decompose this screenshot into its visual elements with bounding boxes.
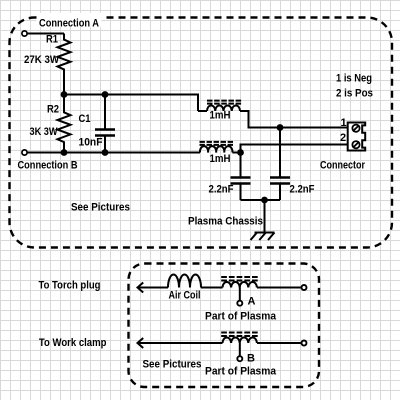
resistor R1: [58, 34, 71, 95]
svg-text:Part of Plasma: Part of Plasma: [205, 366, 277, 378]
svg-text:1: 1: [341, 117, 347, 129]
wire: tap B: [239, 343, 241, 356]
capacitor 2.2nF (right): [270, 128, 290, 201]
svg-text:Part of Plasma: Part of Plasma: [205, 311, 277, 323]
capacitor 2.2nF (left): [231, 153, 251, 201]
wire: chassis bus: [241, 199, 281, 201]
svg-text:Connection B: Connection B: [18, 160, 78, 172]
svg-text:2 is Pos: 2 is Pos: [336, 88, 373, 100]
inductor Air Coil: [168, 275, 201, 288]
junction node: C1 top: [102, 91, 109, 98]
svg-text:A: A: [248, 296, 256, 308]
wire: L2 to junction: [232, 152, 240, 154]
inductor L2 1mH (bottom): [200, 142, 234, 153]
wire: L1 to pin1 net: [240, 111, 348, 128]
main enclosure dashed box: [10, 18, 393, 248]
svg-text:2.2nF: 2.2nF: [209, 184, 234, 196]
svg-text:To Work clamp: To Work clamp: [39, 337, 107, 349]
wire: transformer B to terminal: [257, 342, 301, 344]
terminal work right: [302, 341, 307, 346]
svg-text:R2: R2: [47, 104, 59, 116]
svg-text:R1: R1: [46, 34, 58, 46]
svg-text:Plasma Chassis: Plasma Chassis: [188, 216, 263, 228]
svg-text:See Pictures: See Pictures: [71, 202, 130, 214]
svg-text:2.2nF: 2.2nF: [290, 184, 315, 196]
svg-text:1 is Neg: 1 is Neg: [336, 73, 372, 85]
junction node: C1 bottom: [102, 149, 109, 156]
chassis ground symbol: [251, 200, 275, 240]
wire: transformer A to terminal: [257, 287, 301, 289]
junction node: chassis: [261, 197, 268, 204]
wire: terminal A to R1 top: [27, 33, 64, 35]
terminal A: [237, 301, 242, 306]
wire: terminal B to L2 (bottom net): [27, 152, 200, 154]
arrow to torch plug: [138, 283, 144, 293]
svg-text:27K 3W: 27K 3W: [24, 54, 60, 66]
wire: tap A: [239, 288, 241, 301]
inductor B (part of plasma, work side): [221, 333, 258, 344]
inductor A (part of plasma, torch side): [221, 277, 258, 288]
connector screw pin 1: [352, 125, 359, 132]
terminal Connection B: [22, 150, 27, 155]
svg-text:Connection A: Connection A: [39, 18, 99, 30]
junction node: R2 bottom: [61, 149, 68, 156]
wire: work line left: [138, 342, 223, 344]
label Connection A (with white backing over dashed border): [37, 13, 102, 30]
svg-text:2: 2: [340, 132, 346, 144]
junction node: R1/R2/top wire: [61, 91, 68, 98]
inductor L1 1mH (top): [198, 101, 241, 111]
svg-text:1mH: 1mH: [210, 153, 231, 165]
wire: node to step at x=198 (top net): [64, 95, 198, 112]
junction node: L2 out: [237, 149, 244, 156]
terminal torch right: [302, 285, 307, 290]
arrow to work clamp: [138, 338, 144, 348]
wire: air coil to transformer A: [201, 287, 223, 289]
svg-text:Connector: Connector: [320, 160, 366, 172]
svg-text:Air Coil: Air Coil: [169, 290, 201, 302]
junction node: pin1/cap: [277, 124, 284, 131]
connector J1 body: [348, 123, 366, 151]
svg-text:C1: C1: [79, 113, 91, 125]
lower enclosure dashed box: [129, 264, 320, 388]
svg-text:See Pictures: See Pictures: [143, 359, 202, 371]
resistor R2: [58, 95, 71, 153]
svg-text:B: B: [247, 353, 255, 365]
svg-text:To Torch plug: To Torch plug: [39, 280, 101, 292]
capacitor C1: [95, 95, 115, 153]
svg-text:1mH: 1mH: [210, 110, 231, 122]
wire: torch line left: [138, 287, 169, 289]
svg-text:10nF: 10nF: [79, 137, 103, 149]
svg-text:3K 3W: 3K 3W: [30, 126, 59, 138]
terminal B: [237, 356, 242, 361]
terminal Connection A: [22, 31, 27, 36]
wire: junction up to pin2 net: [241, 145, 348, 153]
connector screw pin 2: [352, 141, 359, 148]
